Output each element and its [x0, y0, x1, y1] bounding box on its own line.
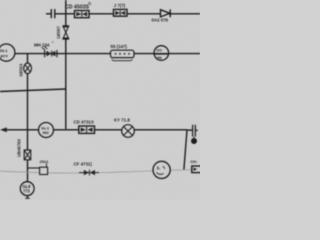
wire rail2 — [15, 53, 200, 55]
source circle G1 — [0, 44, 15, 61]
diode pair B2 — [79, 170, 99, 176]
wire vertical V1 lower — [65, 39, 67, 129]
wire VL vertical left — [27, 54, 29, 199]
clipped diode box right edge — [192, 166, 202, 173]
wire vertical V1 upper — [65, 0, 67, 26]
source circle G3 — [20, 182, 34, 196]
wire rail3 — [5, 129, 187, 131]
wire rail1 right segment — [55, 13, 200, 15]
source circle G2 — [39, 123, 54, 138]
arrowhead left — [0, 127, 7, 132]
lamp L3 — [24, 150, 31, 160]
lamp L2 — [122, 125, 135, 138]
paper noise overlay — [0, 0, 1, 1]
lamp L1 — [24, 63, 32, 74]
wire V3 — [184, 130, 187, 170]
diode OA2 — [161, 9, 171, 17]
suppressor Z1 — [62, 26, 69, 39]
capacitor C1 — [51, 9, 55, 18]
wire rail4 faint — [0, 170, 200, 174]
wire rail1 left segment — [46, 13, 51, 15]
capacitor C2 — [187, 125, 198, 137]
diode box D1 — [75, 11, 90, 18]
polarity blob — [191, 137, 197, 144]
wire stub rail y90 — [0, 89, 66, 92]
meter circle M1 — [154, 46, 169, 61]
diode box D2 — [114, 9, 128, 16]
photodiode LED1 — [42, 46, 58, 57]
switch box B1 — [28, 163, 48, 174]
diode box D3 — [79, 126, 95, 133]
filter box F1 — [111, 50, 135, 61]
meter circle M2 — [153, 161, 170, 178]
